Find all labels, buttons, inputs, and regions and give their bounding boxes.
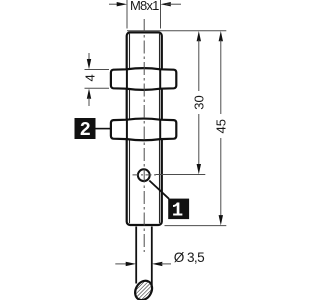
dimension cable diameter 3.5 [115,250,204,266]
hex nut 2 [111,119,176,141]
dimension 30 (thread length to LED) [127,31,226,175]
cable [136,227,152,286]
cable end ellipse with hatch [132,278,156,300]
dimension 45 (overall length) [165,31,229,226]
center line (vertical axis of sensor) [143,19,145,252]
thread root line left [129,34,131,224]
svg-text:4: 4 [83,74,98,81]
dimension M8x1 [109,0,181,29]
barrel (threaded sensor body) [127,32,162,225]
hex nut 1 [111,68,176,90]
callout box 2 (nut) [75,118,111,141]
svg-text:M8x1: M8x1 [130,0,159,13]
svg-text:Ø 3,5: Ø 3,5 [174,250,204,265]
callout box 1 (LED) [149,181,189,222]
svg-text:45: 45 [213,119,228,133]
svg-text:2: 2 [79,119,90,141]
dimension 4 (nut height) [83,53,110,106]
svg-text:30: 30 [191,95,206,109]
thread root line right [159,34,161,224]
LED circle on barrel [133,169,157,181]
svg-text:1: 1 [172,199,183,221]
